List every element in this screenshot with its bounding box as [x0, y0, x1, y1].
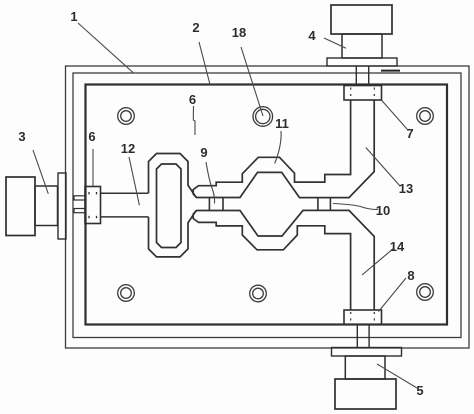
resonator 12 outer loop lower part	[149, 211, 197, 257]
connector 3 pin lower bar	[74, 209, 86, 213]
leader line 13	[366, 148, 400, 187]
screw hole bottom-center	[250, 285, 267, 302]
coupling element 9	[209, 198, 223, 211]
screw hole 18 top-center	[253, 107, 273, 127]
connector 4 body	[331, 5, 392, 34]
leader line 9	[206, 162, 215, 204]
svg-text:10: 10	[376, 203, 390, 218]
svg-text:11: 11	[275, 116, 289, 131]
connector 3 neck	[35, 186, 58, 226]
svg-text:5: 5	[416, 383, 423, 398]
microstrip feed line from block 6	[101, 193, 149, 217]
coax transition block 8	[344, 310, 382, 325]
connector 3 flange	[58, 173, 66, 239]
connector 4 feed pin	[356, 66, 368, 86]
leader line 10	[333, 204, 378, 210]
resonator 12 inner slot	[157, 164, 182, 248]
housing outer box 1	[66, 66, 470, 348]
connector 5 flange	[332, 348, 402, 357]
leader line 6 right	[193, 106, 195, 135]
svg-text:18: 18	[232, 25, 246, 40]
leader line 11	[275, 131, 281, 164]
leader line 14	[362, 248, 394, 275]
leader line 4	[324, 38, 346, 48]
svg-text:14: 14	[390, 239, 405, 254]
coax transition block 6	[85, 187, 101, 224]
svg-text:12: 12	[121, 141, 135, 156]
connector 5 neck	[345, 356, 385, 379]
svg-text:2: 2	[192, 20, 199, 35]
leader line 2	[199, 42, 210, 85]
connector 5 feed pin	[357, 325, 369, 348]
svg-text:13: 13	[399, 181, 413, 196]
screw hole top-right	[417, 108, 434, 125]
connector 4 neck	[342, 34, 382, 58]
coupling line upper edge: neck 9, ring 11 top inner, neck to feed 13	[196, 100, 374, 198]
cavity inner box 2	[86, 85, 448, 325]
svg-text:7: 7	[406, 126, 413, 141]
block 8 dashed pins	[351, 312, 375, 324]
resonator 12 outer loop upper part	[149, 154, 197, 198]
connector 3 pin upper bar	[74, 196, 86, 200]
ring resonator 11 outer upper boundary with stub arms	[193, 100, 350, 198]
svg-text:4: 4	[308, 28, 316, 43]
leader line 5	[377, 364, 417, 388]
leader line 18	[241, 47, 263, 116]
ring resonator 11 outer lower boundary with stub arms	[193, 211, 350, 311]
svg-text:3: 3	[18, 129, 25, 144]
leader line 6 left	[92, 149, 94, 187]
connector 5 body	[335, 379, 396, 409]
screw hole bottom-left	[118, 285, 135, 302]
coupling line lower edge: neck 9, ring 11 bottom inner, neck to feed 14	[196, 210, 374, 310]
connector 4 flange	[327, 58, 397, 66]
coax transition block 7	[344, 86, 382, 101]
block 7 dashed pins	[351, 88, 375, 100]
block 6 dashed pins	[89, 192, 97, 221]
svg-text:6: 6	[189, 92, 196, 107]
leader line 7	[382, 101, 407, 130]
housing middle box	[73, 73, 461, 338]
leader line 8	[379, 278, 407, 312]
connector 3 body	[6, 177, 35, 236]
svg-text:8: 8	[407, 268, 414, 283]
coupling element 10	[318, 198, 331, 211]
svg-text:9: 9	[200, 145, 207, 160]
svg-text:1: 1	[70, 9, 77, 24]
svg-text:6: 6	[88, 129, 95, 144]
screw hole bottom-right	[417, 284, 434, 301]
leader line 12	[129, 157, 139, 205]
dark seam right of connector 4 flange	[381, 70, 400, 72]
screw hole top-left	[118, 108, 135, 125]
leader line 3	[33, 150, 48, 194]
leader line 1	[78, 23, 133, 73]
